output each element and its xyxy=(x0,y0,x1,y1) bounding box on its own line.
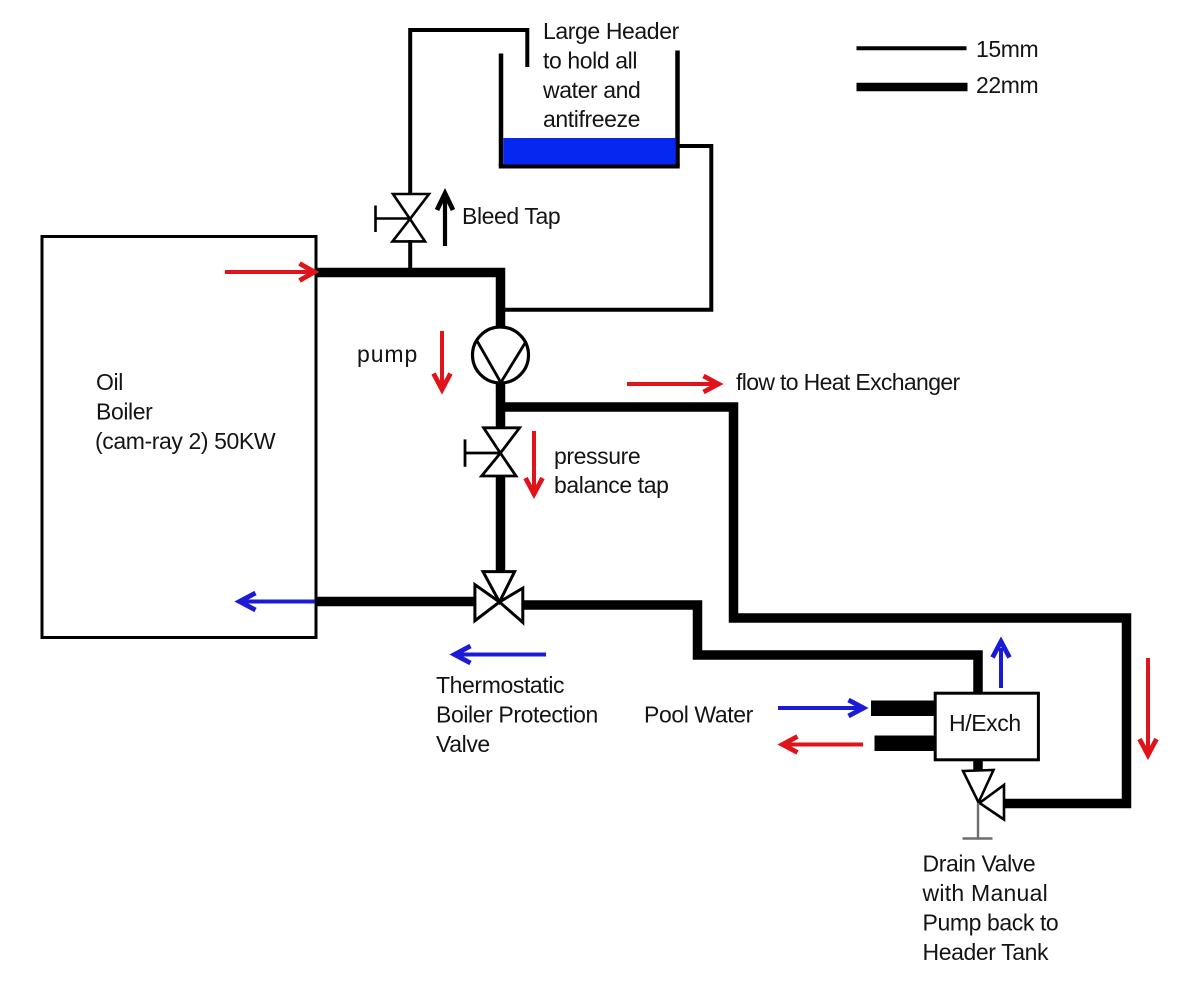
wire: 22mm pipe thermostatic valve to H/Exch xyxy=(521,605,978,695)
wire: 15mm return pipe header tank to pump inlet xyxy=(502,146,711,310)
wire: 22mm pipe pressure tap to thermostatic valve xyxy=(496,475,506,573)
wire: 22mm pipe pump to pressure tap junction xyxy=(496,382,506,429)
header tank water fill xyxy=(503,138,676,165)
arrow: red left (pool water out) xyxy=(783,737,864,753)
svg-text:pump: pump xyxy=(357,341,418,367)
header tank walls xyxy=(499,51,680,167)
legend 22mm line xyxy=(857,83,968,92)
header tank label xyxy=(542,18,680,132)
svg-text:Oil: Oil xyxy=(96,369,123,395)
svg-text:Valve: Valve xyxy=(436,731,490,757)
heat exchanger box xyxy=(935,693,1038,760)
arrow: blue up (H/Exch to loop) xyxy=(993,642,1010,689)
svg-text:antifreeze: antifreeze xyxy=(543,106,640,132)
wire: 22mm pipe junction to heat exchanger loop xyxy=(496,407,1127,804)
svg-text:water and: water and xyxy=(542,77,640,103)
pool water inlet stub xyxy=(871,701,935,717)
valve: pressure balance tap xyxy=(465,428,520,476)
arrow: red down (pump flow) xyxy=(434,331,451,390)
svg-text:Boiler: Boiler xyxy=(96,399,153,425)
svg-text:Drain Valve: Drain Valve xyxy=(923,851,1036,877)
svg-text:(cam-ray 2) 50KW: (cam-ray 2) 50KW xyxy=(95,428,276,454)
valve: thermostatic 3-way xyxy=(475,572,523,623)
boiler box xyxy=(42,237,316,638)
boiler label text xyxy=(95,369,276,454)
svg-text:pressure: pressure xyxy=(554,443,640,469)
svg-text:H/Exch: H/Exch xyxy=(949,710,1021,736)
thermostatic valve label xyxy=(436,672,598,757)
svg-text:Pool Water: Pool Water xyxy=(644,702,754,728)
pool water outlet stub xyxy=(875,736,936,752)
drain valve label xyxy=(922,851,1059,966)
svg-text:balance tap: balance tap xyxy=(554,472,669,498)
pump xyxy=(473,327,529,383)
arrow: red down (return loop right) xyxy=(1140,658,1157,755)
valve: bleed tap xyxy=(376,194,430,241)
arrow: blue left (into boiler return) xyxy=(240,593,316,610)
arrow: blue left (thermostatic flow) xyxy=(455,646,547,663)
svg-text:Header Tank: Header Tank xyxy=(923,939,1049,965)
svg-text:flow to Heat Exchanger: flow to Heat Exchanger xyxy=(736,369,960,395)
wire: 22mm flow pipe boiler to pump xyxy=(316,273,501,329)
svg-text:15mm: 15mm xyxy=(976,36,1038,62)
svg-text:Large Header: Large Header xyxy=(543,18,680,44)
svg-text:with Manual: with Manual xyxy=(922,880,1048,906)
svg-text:Thermostatic: Thermostatic xyxy=(436,672,564,698)
pressure balance tap label xyxy=(554,443,669,498)
wire: 15mm pipe bleed tap down to flow pipe xyxy=(408,240,412,270)
valve: drain valve xyxy=(963,770,1004,820)
wire: 22mm return pipe valve to boiler xyxy=(316,597,477,607)
svg-text:22mm: 22mm xyxy=(976,72,1038,98)
wire: 15mm pipe bleed tap to header fill xyxy=(410,30,527,195)
svg-text:to hold all: to hold all xyxy=(543,48,637,74)
arrow: red down (pressure balance) xyxy=(526,431,543,494)
svg-text:Pump back to: Pump back to xyxy=(923,910,1059,936)
arrow: red right (into boiler top) xyxy=(225,264,315,281)
arrow: red right (flow to heat exchanger) xyxy=(627,376,719,392)
svg-text:Bleed Tap: Bleed Tap xyxy=(462,203,560,229)
drain valve stem xyxy=(963,803,993,839)
arrow: blue right (pool water in) xyxy=(778,700,864,716)
arrow: black up (bleed tap) xyxy=(437,194,453,247)
wire: 22mm stub H/Exch bottom to drain valve xyxy=(973,758,983,772)
legend 15mm line xyxy=(857,46,967,50)
svg-text:Boiler Protection: Boiler Protection xyxy=(436,702,598,728)
